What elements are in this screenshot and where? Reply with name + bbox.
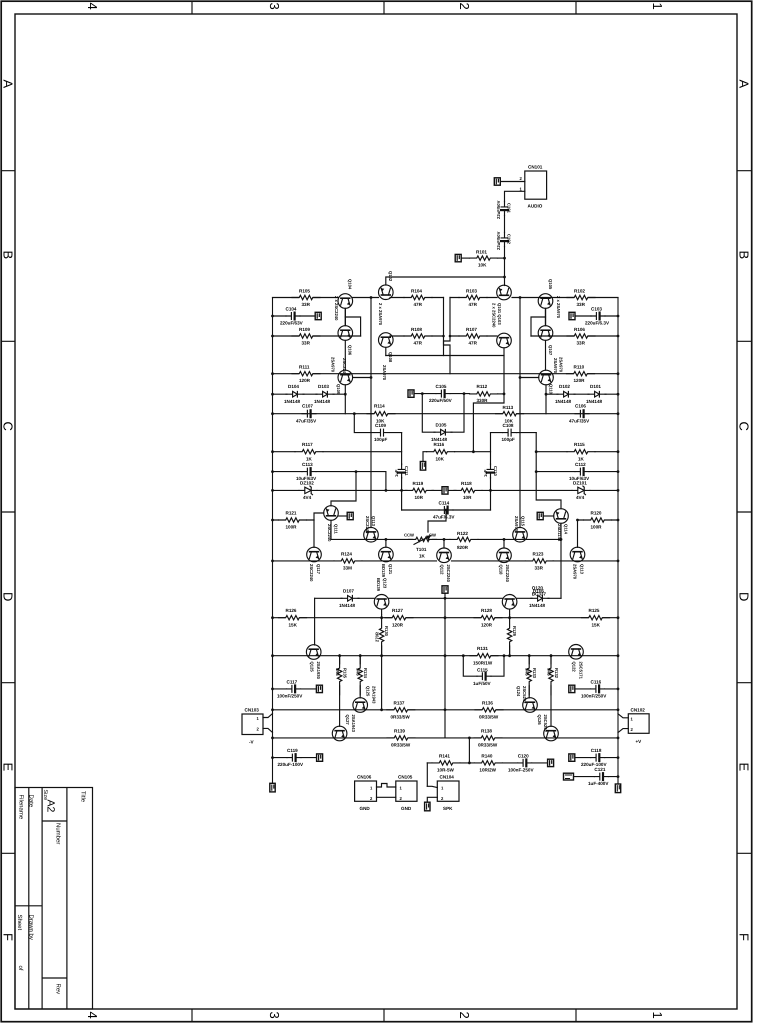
svg-text:Q105: Q105 — [548, 279, 553, 290]
wire CN104 pin1 — [427, 786, 437, 787]
transistor Q114 — [554, 509, 569, 524]
wire y598.3 row — [315, 597, 561, 599]
svg-text:GND: GND — [401, 806, 412, 811]
svg-text:Q125: Q125 — [366, 686, 371, 697]
transistor Q110b — [513, 527, 528, 542]
wire row y336 right — [531, 335, 618, 337]
svg-text:R103: R103 — [466, 289, 477, 294]
transistor Q119 — [379, 547, 394, 562]
svg-text:33R: 33R — [302, 340, 311, 345]
svg-text:0R33/5W: 0R33/5W — [391, 743, 411, 748]
svg-text:BC337: BC337 — [532, 592, 547, 597]
emitter resistor R136 vertical — [359, 654, 362, 657]
capacitor C111 1uF — [398, 464, 405, 478]
transistor Q121 driver — [374, 595, 389, 610]
svg-text:D101: D101 — [590, 384, 601, 389]
wire row y297.5 left — [273, 297, 339, 299]
CN101 connector — [525, 171, 547, 199]
resistor R136b 0R33/5W — [475, 707, 503, 713]
capacitor C104 220uF/63V — [286, 313, 300, 320]
wire C101 to C102 — [504, 216, 506, 233]
resistor R122 820R — [450, 536, 478, 542]
svg-text:D107: D107 — [343, 588, 354, 593]
resistor R116 10K — [427, 449, 455, 455]
svg-text:CN101: CN101 — [528, 165, 543, 170]
CN102 connector — [628, 714, 649, 734]
riser Q111 collector — [331, 472, 356, 506]
svg-text:100nF-250V: 100nF-250V — [508, 768, 534, 773]
svg-text:R123: R123 — [533, 551, 544, 556]
svg-text:C103: C103 — [591, 307, 602, 312]
resistor R139 0R33/5W — [387, 735, 415, 741]
svg-text:R133: R133 — [532, 668, 537, 679]
svg-text:2SC5171: 2SC5171 — [579, 662, 584, 680]
capacitor C120 100nF-250V — [518, 760, 532, 767]
svg-text:R141: R141 — [439, 753, 450, 758]
wire row y336 left — [273, 335, 361, 337]
svg-text:A2: A2 — [45, 800, 57, 813]
svg-text:Title: Title — [80, 791, 87, 803]
svg-text:2 x 2SA970: 2 x 2SA970 — [378, 303, 383, 326]
capacitor C103 220uF/6.3V — [591, 313, 605, 320]
svg-text:120R: 120R — [481, 622, 493, 627]
svg-text:4: 4 — [85, 1012, 100, 1019]
svg-text:Q108: Q108 — [388, 352, 393, 363]
svg-text:47uF/6.3V: 47uF/6.3V — [433, 515, 455, 520]
zone row ticks left — [1, 171, 15, 854]
svg-text:C112: C112 — [575, 462, 586, 467]
wire CN101 pin2 to port — [501, 181, 525, 183]
transistor Q102 — [379, 285, 394, 300]
svg-text:R125: R125 — [589, 608, 600, 613]
svg-text:220uF/6.3V: 220uF/6.3V — [585, 321, 610, 326]
svg-text:22uF/50V: 22uF/50V — [496, 231, 501, 250]
svg-text:R137: R137 — [394, 700, 405, 705]
svg-text:R140: R140 — [481, 753, 492, 758]
transistor Q110 bias right — [539, 370, 554, 385]
svg-text:Q104: Q104 — [348, 279, 353, 290]
svg-text:Q111: Q111 — [334, 524, 339, 534]
svg-text:R116: R116 — [434, 442, 445, 447]
svg-text:Q126: Q126 — [537, 715, 542, 726]
emitter resistor R132 vertical — [550, 654, 553, 657]
svg-text:Q118: Q118 — [499, 565, 504, 576]
resistor R121 100R — [279, 517, 307, 523]
wire Q103 bottom to 403 — [473, 348, 504, 452]
resistor R113 10K — [496, 411, 524, 417]
junction at input vertical — [503, 276, 506, 279]
svg-text:1uF/50V: 1uF/50V — [473, 681, 492, 686]
capacitor C107 47uF/35V — [302, 410, 316, 417]
resistor R126 15K — [279, 615, 307, 621]
svg-text:330R: 330R — [477, 398, 489, 403]
svg-text:R109: R109 — [299, 327, 310, 332]
svg-text:Q109: Q109 — [336, 384, 341, 395]
svg-text:100R: 100R — [591, 525, 603, 530]
port GND at CN101 pin2 — [494, 178, 500, 185]
resistor R128 120R — [474, 615, 502, 621]
svg-text:R112: R112 — [477, 384, 488, 389]
wire R112 right — [498, 393, 504, 395]
port at Q111 — [347, 512, 353, 519]
wire C118 row — [575, 757, 618, 759]
svg-text:B: B — [1, 251, 16, 260]
svg-text:100pF: 100pF — [374, 437, 387, 442]
wire port to Q114 base — [544, 515, 554, 517]
resistor R107 47R — [459, 333, 487, 339]
transistor Q104 — [338, 294, 353, 309]
svg-text:2SA970: 2SA970 — [573, 564, 578, 580]
svg-text:Q110: Q110 — [549, 384, 554, 395]
svg-text:E: E — [737, 763, 752, 772]
port at C118 — [569, 754, 575, 761]
port at C119 — [317, 754, 323, 761]
svg-text:R114: R114 — [374, 404, 385, 409]
svg-text:3: 3 — [267, 1012, 282, 1019]
svg-text:R139: R139 — [394, 728, 405, 733]
svg-text:Q112: Q112 — [440, 565, 445, 576]
svg-text:C116: C116 — [591, 679, 602, 684]
port at C120 — [548, 759, 554, 766]
diode D106 1N4148 — [531, 596, 549, 602]
zener DZ102 6V8 — [299, 486, 317, 495]
svg-text:Q114: Q114 — [564, 524, 569, 535]
resistor R140 10R/2W — [474, 760, 502, 766]
output transistor Q124 — [523, 698, 538, 713]
resistor R125 15K — [582, 615, 610, 621]
transistor Q111 — [324, 506, 339, 521]
svg-text:10R-5W: 10R-5W — [437, 768, 455, 773]
svg-text:SPK: SPK — [443, 806, 453, 811]
riser to R141 row — [468, 738, 470, 763]
wire D102 D101 row — [546, 393, 618, 395]
resistor R104 47R — [404, 295, 432, 301]
svg-text:CN104: CN104 — [440, 775, 455, 780]
svg-text:1N4148: 1N4148 — [586, 399, 603, 404]
svg-text:47R: 47R — [414, 302, 423, 307]
svg-text:DZ102: DZ102 — [300, 480, 314, 485]
svg-text:R115: R115 — [574, 442, 585, 447]
wire R101 left to port — [462, 257, 470, 259]
svg-text:1N4148: 1N4148 — [555, 399, 572, 404]
capacitor C119 220uF-100V — [287, 754, 301, 761]
wire CN102 pin2 — [618, 729, 628, 733]
svg-text:C: C — [1, 422, 16, 431]
svg-text:D: D — [737, 592, 752, 601]
svg-text:R119: R119 — [413, 481, 424, 486]
CN104 connector — [437, 781, 459, 801]
svg-text:47R: 47R — [414, 340, 423, 345]
crossover wire a — [444, 298, 451, 374]
wire DZ102 DZ101 row — [273, 489, 619, 491]
transistor Q112 — [437, 548, 452, 563]
svg-text:0R33/5W: 0R33/5W — [479, 714, 499, 719]
svg-text:R102: R102 — [574, 289, 585, 294]
svg-text:1N4148: 1N4148 — [529, 603, 546, 608]
title block divider Size/Number — [42, 820, 67, 822]
C115 loop 1uF/50V — [463, 656, 504, 677]
crossover wire b — [444, 298, 451, 356]
svg-text:Q123: Q123 — [383, 578, 388, 589]
wire CN106 to CN105 pin2 — [377, 796, 396, 798]
svg-text:100pF: 100pF — [502, 437, 515, 442]
wire Q112 top — [443, 539, 445, 548]
resistor R124 33M — [334, 558, 362, 564]
svg-text:Q113: Q113 — [580, 564, 585, 575]
transistor Q108 — [379, 333, 394, 348]
transistor Q122 pre-driver right — [569, 645, 584, 660]
svg-text:R135: R135 — [343, 668, 348, 679]
svg-text:Q127: Q127 — [345, 715, 350, 726]
capacitor C109 100pF — [375, 429, 389, 436]
svg-text:2 x 2SC2240: 2 x 2SC2240 — [492, 303, 497, 328]
wire R103 — [450, 297, 497, 299]
svg-text:2SA970: 2SA970 — [514, 516, 519, 532]
svg-text:BD139: BD139 — [376, 578, 381, 592]
svg-text:2: 2 — [457, 1012, 472, 1019]
transistor Q106 — [338, 326, 353, 341]
transistor Q116 — [497, 548, 512, 563]
svg-text:CN103: CN103 — [245, 708, 260, 713]
svg-text:0R33/5W: 0R33/5W — [478, 743, 498, 748]
svg-text:2SA1930: 2SA1930 — [316, 662, 321, 680]
svg-text:2SC2240: 2SC2240 — [365, 516, 370, 534]
port at Q114 — [537, 512, 543, 519]
capacitor C102 22uF/50V — [501, 233, 508, 247]
svg-text:R121: R121 — [286, 511, 297, 516]
wire C116 row — [575, 688, 618, 690]
svg-text:CN102: CN102 — [631, 707, 646, 712]
wire top link Q102 Q101 tops — [386, 277, 505, 285]
svg-text:47R: 47R — [469, 340, 478, 345]
vertical x345 Q106 to rail — [344, 341, 346, 414]
wire y297.5 to crossover — [353, 297, 379, 299]
svg-text:C117: C117 — [287, 679, 298, 684]
svg-text:1K: 1K — [306, 456, 313, 461]
trimmer T101 1K — [409, 536, 437, 542]
svg-text:R101: R101 — [476, 250, 487, 255]
svg-text:100nF/250V: 100nF/250V — [581, 694, 607, 699]
junction R101 node — [503, 257, 506, 260]
svg-text:Q124: Q124 — [516, 686, 521, 697]
wire y560.9 — [273, 560, 619, 562]
svg-text:of: of — [17, 966, 24, 971]
svg-text:47R: 47R — [469, 302, 478, 307]
svg-text:R134: R134 — [363, 668, 368, 679]
wire Q104 to Q106 — [344, 309, 346, 326]
resistor R111 120R — [292, 371, 320, 377]
wire y355.5 — [386, 355, 504, 357]
svg-text:Sheet: Sheet — [16, 915, 23, 931]
svg-text:Drawn by: Drawn by — [28, 915, 35, 940]
svg-text:R120: R120 — [591, 511, 602, 516]
vertical from R141 to CN104 — [426, 763, 428, 786]
vertical x490.5 C108 to C114 with C110 — [490, 433, 492, 510]
transistor Q115r — [570, 547, 585, 562]
svg-text:1uF: 1uF — [483, 469, 488, 477]
wide port at C121 — [564, 773, 574, 780]
svg-text:D104: D104 — [288, 384, 299, 389]
wire R101 right — [498, 257, 505, 259]
port output node — [442, 586, 448, 593]
wire C114 row — [402, 509, 491, 511]
svg-text:2SC2240: 2SC2240 — [446, 565, 451, 583]
svg-text:R132: R132 — [554, 668, 559, 679]
bus junction dots — [271, 315, 274, 318]
rail y373.7 — [273, 373, 619, 375]
port right bus bottom — [615, 784, 620, 793]
resistor R119 10R — [406, 487, 434, 493]
CN106 connector — [355, 781, 377, 801]
wire y539.4 left — [331, 539, 413, 547]
transistor Q107 — [538, 326, 553, 341]
svg-text:BD139: BD139 — [381, 564, 386, 578]
svg-text:4V4: 4V4 — [303, 495, 312, 500]
svg-text:R104: R104 — [411, 289, 422, 294]
svg-text:1: 1 — [650, 3, 665, 10]
wire mid node L to lower rail — [345, 317, 360, 336]
svg-text:22uF/50V: 22uF/50V — [496, 200, 501, 219]
wire C108 row — [491, 432, 537, 434]
svg-text:0R33/5W: 0R33/5W — [391, 714, 411, 719]
svg-text:C102: C102 — [507, 234, 512, 245]
junction x520 — [519, 296, 522, 299]
svg-text:120R: 120R — [392, 622, 404, 627]
port left bus bottom — [270, 783, 275, 792]
svg-text:R108: R108 — [411, 327, 422, 332]
svg-text:Number: Number — [55, 823, 62, 844]
capacitor C112 10uF/6.3V — [575, 468, 589, 475]
svg-text:R118: R118 — [461, 481, 472, 486]
svg-text:220uF/50V: 220uF/50V — [429, 398, 453, 403]
svg-text:1N4148: 1N4148 — [314, 399, 331, 404]
transistor Q123 pre-driver left — [306, 645, 321, 660]
wire R108 — [390, 335, 444, 337]
svg-text:R128: R128 — [481, 608, 492, 613]
svg-text:C111: C111 — [404, 466, 409, 476]
port at C103 — [569, 312, 575, 319]
svg-text:220uF-100V: 220uF-100V — [278, 762, 304, 767]
svg-text:Q125: Q125 — [310, 662, 315, 673]
svg-text:2 x 2SC2240: 2 x 2SC2240 — [334, 296, 339, 321]
svg-text:100nF/250V: 100nF/250V — [277, 694, 303, 699]
wire D104 D103 row — [273, 393, 346, 395]
wire C121 row — [574, 776, 619, 778]
wire CN103 pin1 — [263, 714, 273, 718]
svg-text:R129: R129 — [512, 626, 517, 637]
svg-text:C119: C119 — [287, 748, 298, 753]
transistor Q101 — [497, 285, 512, 300]
svg-text:A: A — [737, 80, 752, 89]
svg-text:C106: C106 — [575, 404, 586, 409]
svg-text:100R: 100R — [286, 525, 298, 530]
svg-text:5R6: 5R6 — [335, 668, 340, 676]
resistor R123 33R — [526, 558, 554, 564]
svg-text:2SA1943: 2SA1943 — [372, 686, 377, 704]
diode D105 loop 1N4148 — [422, 394, 464, 433]
vertical Q121 emitter chain w resistor R130 — [381, 609, 383, 614]
svg-text:F: F — [737, 933, 752, 941]
svg-text:33R: 33R — [535, 566, 544, 571]
resistor R109 33R — [292, 333, 320, 339]
wire y540.5 — [433, 539, 562, 547]
svg-text:2SC2240: 2SC2240 — [505, 565, 510, 583]
wire C113 row — [273, 472, 386, 491]
svg-text:R107: R107 — [466, 327, 477, 332]
wire C117 row — [273, 688, 317, 690]
svg-text:10K: 10K — [478, 263, 487, 268]
svg-text:C104: C104 — [286, 307, 297, 312]
transistor Q109 bias left — [338, 370, 353, 385]
svg-text:1K: 1K — [578, 456, 585, 461]
wire Q105 to Q107 — [545, 309, 547, 326]
zone row ticks right — [737, 171, 752, 854]
transistor Q117 — [307, 547, 322, 562]
capacitor C106 47uF/35V — [575, 410, 589, 417]
resistor R106 33R — [567, 333, 595, 339]
svg-text:10K: 10K — [436, 456, 445, 461]
port at C116 — [569, 685, 575, 692]
svg-text:Q120: Q120 — [532, 586, 544, 591]
svg-text:2SC5242: 2SC5242 — [522, 686, 527, 704]
wire C102 down to Q101 top — [504, 247, 506, 286]
resistor R110 120R — [567, 371, 595, 377]
svg-text:33R: 33R — [577, 340, 586, 345]
svg-text:D: D — [1, 592, 16, 601]
svg-text:2SA970: 2SA970 — [331, 357, 336, 373]
title block divider Number/Rev — [42, 977, 67, 979]
svg-text:2SC5242: 2SC5242 — [543, 715, 548, 733]
svg-text:150R/1W: 150R/1W — [473, 660, 493, 665]
transistor Q103 — [497, 333, 512, 348]
resistor R117 1K — [295, 449, 323, 455]
svg-text:10R/2W: 10R/2W — [479, 768, 496, 773]
svg-text:AUDIO: AUDIO — [528, 204, 543, 209]
wire R141 R140 row — [427, 762, 547, 764]
svg-text:DZ101: DZ101 — [573, 480, 587, 485]
svg-text:Q117: Q117 — [316, 564, 321, 575]
svg-text:2SA970: 2SA970 — [553, 358, 558, 374]
resistor R112 330R — [470, 391, 498, 397]
svg-text:Q102: Q102 — [388, 271, 393, 282]
svg-text:Q101 Q103: Q101 Q103 — [497, 303, 502, 325]
svg-text:B: B — [737, 251, 752, 260]
port at C105 — [408, 390, 414, 397]
emitter resistor R133 vertical — [528, 654, 531, 657]
resistor R137 0R33/5W — [387, 707, 415, 713]
port below CN104 — [425, 802, 430, 811]
transistor Q105 — [538, 294, 553, 309]
resistor R105 33R — [292, 295, 320, 301]
svg-text:A: A — [1, 80, 16, 89]
wire C112 row — [536, 471, 618, 473]
diode D103 1N4148 — [316, 391, 334, 397]
svg-text:10R: 10R — [415, 495, 424, 500]
title block column lines — [29, 788, 67, 1010]
rail y737.9 — [273, 737, 619, 739]
junction x371 — [370, 296, 373, 299]
capacitor C114 47uF/6.3V — [439, 507, 453, 514]
svg-text:C109: C109 — [375, 423, 386, 428]
rail y709.8 — [273, 709, 619, 711]
wire Q109 base stub — [353, 377, 371, 379]
wire R116 row — [423, 452, 491, 462]
capacitor C113 10uF/6.3V — [302, 468, 316, 475]
svg-text:2SA970: 2SA970 — [382, 365, 387, 381]
resistor R127 120R — [385, 615, 413, 621]
resistor R114 10K — [367, 411, 395, 417]
svg-text:33R: 33R — [302, 302, 311, 307]
